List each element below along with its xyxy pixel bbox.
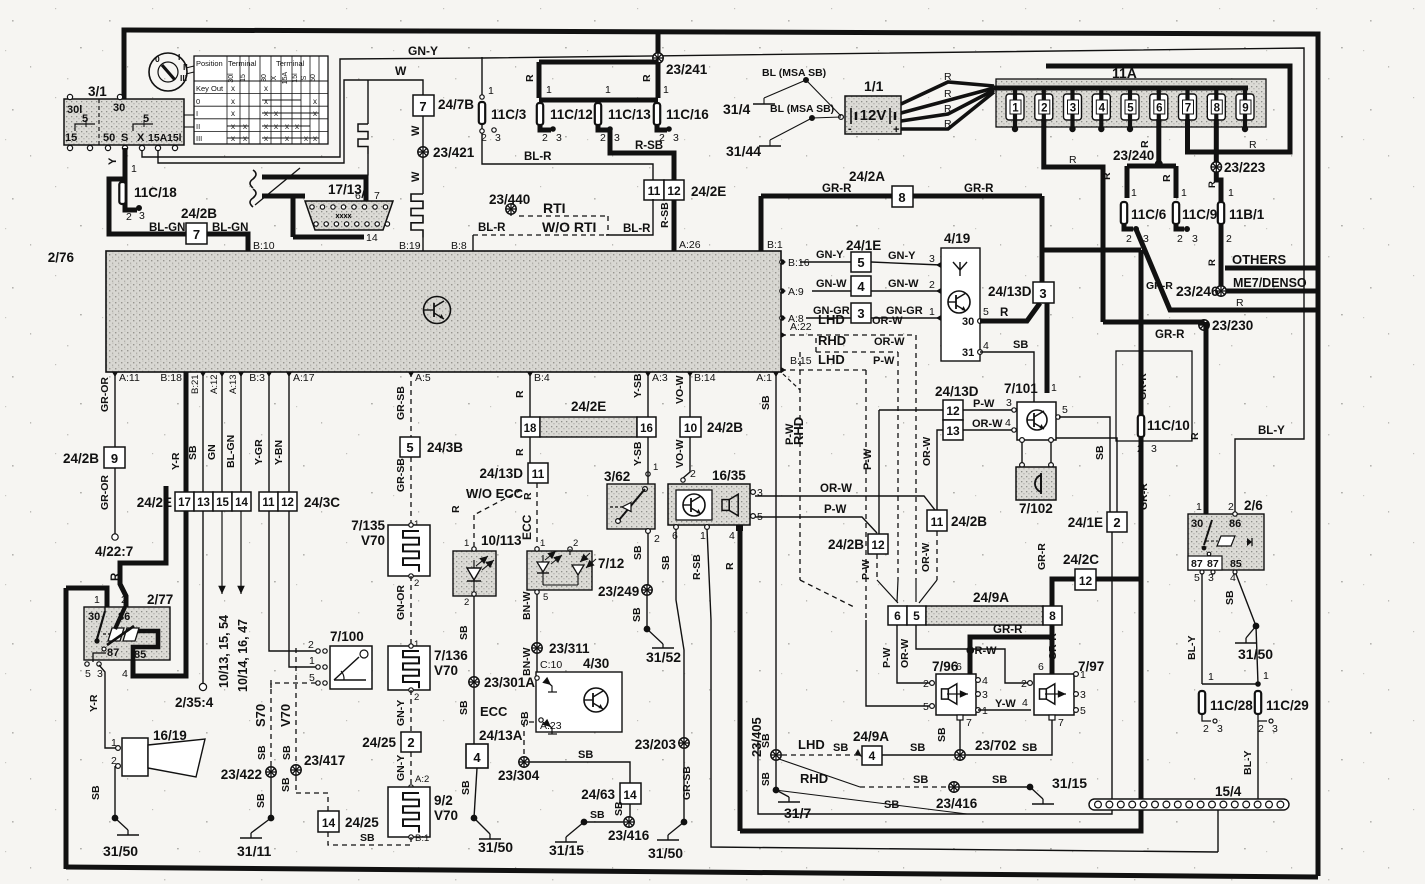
junction 23/241 xyxy=(653,31,708,77)
svg-text:7: 7 xyxy=(193,227,200,242)
svg-text:23/223: 23/223 xyxy=(1224,160,1266,175)
svg-text:III: III xyxy=(180,73,187,83)
svg-text:SB: SB xyxy=(458,700,470,715)
terminal 24/1E 5 4 3 xyxy=(846,238,881,323)
wire R 16/35 leg xyxy=(724,527,740,831)
svg-text:24/13D: 24/13D xyxy=(988,284,1032,299)
svg-text:SB: SB xyxy=(256,745,268,760)
svg-text:14: 14 xyxy=(322,816,336,830)
svg-text:5: 5 xyxy=(543,592,548,603)
wire GN-OR xyxy=(395,576,419,650)
sensor 7/100 xyxy=(308,629,372,689)
svg-text:3: 3 xyxy=(556,132,562,144)
svg-text:B:14: B:14 xyxy=(694,372,716,384)
svg-text:GN-Y: GN-Y xyxy=(888,250,916,262)
svg-text:12: 12 xyxy=(1079,574,1093,588)
svg-text:A:9: A:9 xyxy=(788,286,804,298)
svg-text:5: 5 xyxy=(1062,404,1068,416)
wire squiggle right of table xyxy=(358,80,368,198)
svg-text:30l: 30l xyxy=(228,73,235,83)
svg-text:3: 3 xyxy=(97,668,103,680)
junction 23/246 xyxy=(1176,283,1226,299)
svg-text:A:26: A:26 xyxy=(679,239,701,251)
svg-text:6: 6 xyxy=(672,530,678,542)
wire OR-W 24/9A 5 xyxy=(899,625,1031,683)
svg-text:SB: SB xyxy=(360,832,375,844)
svg-text:OR-W: OR-W xyxy=(920,543,932,572)
svg-text:SB: SB xyxy=(1013,339,1028,351)
svg-text:R: R xyxy=(1101,172,1113,180)
svg-text:24/2E: 24/2E xyxy=(571,399,606,414)
svg-text:2: 2 xyxy=(542,132,548,144)
svg-text:A:3: A:3 xyxy=(652,372,668,384)
svg-text:31/50: 31/50 xyxy=(1238,646,1273,662)
wire W down to B:19 xyxy=(399,116,475,252)
svg-text:R: R xyxy=(1161,174,1173,182)
wire GR-R speakers xyxy=(970,624,1059,674)
wire Y ignition S terminal xyxy=(107,148,125,208)
svg-text:GR-R: GR-R xyxy=(1138,483,1150,510)
switch position table xyxy=(194,56,328,144)
wire SB horn ground xyxy=(90,766,139,859)
junction 23/440 RTI option xyxy=(473,192,651,235)
svg-text:SB: SB xyxy=(761,772,772,786)
svg-text:x: x xyxy=(231,109,235,118)
svg-text:2: 2 xyxy=(600,132,606,144)
svg-text:SB: SB xyxy=(187,445,199,460)
svg-text:1: 1 xyxy=(653,462,658,473)
junction 23/416 left xyxy=(584,809,650,843)
ground 31/52 xyxy=(644,626,681,665)
wire 7/100 pin5 dashed xyxy=(271,683,316,688)
svg-text:GR-R: GR-R xyxy=(1137,373,1149,400)
svg-text:GN-Y: GN-Y xyxy=(408,44,438,58)
svg-text:Y-SB: Y-SB xyxy=(632,441,644,466)
svg-text:4: 4 xyxy=(982,675,988,687)
svg-text:7/136: 7/136 xyxy=(434,648,468,663)
wire SB S70 xyxy=(253,680,271,772)
svg-text:86: 86 xyxy=(1229,518,1241,530)
svg-text:2: 2 xyxy=(1228,501,1234,513)
svg-text:23/240: 23/240 xyxy=(1113,148,1154,163)
svg-text:3: 3 xyxy=(1192,233,1198,245)
svg-text:2: 2 xyxy=(929,279,935,291)
svg-text:16/35: 16/35 xyxy=(712,468,746,483)
wire SB col xyxy=(187,372,207,691)
svg-text:x: x xyxy=(285,134,289,143)
svg-text:1: 1 xyxy=(131,163,137,175)
wire GR-R bus right xyxy=(1042,196,1141,250)
svg-text:14: 14 xyxy=(366,232,378,244)
svg-text:A:17: A:17 xyxy=(293,372,315,384)
wire GR-R 24/2A run xyxy=(761,183,1042,196)
svg-text:SB: SB xyxy=(1224,590,1236,605)
svg-text:11B/1: 11B/1 xyxy=(1229,207,1265,222)
svg-text:11C/13: 11C/13 xyxy=(608,107,651,122)
svg-text:BL (MSA SB): BL (MSA SB) xyxy=(762,67,826,79)
svg-text:R: R xyxy=(1207,181,1218,188)
svg-text:x: x xyxy=(313,134,317,143)
wire bottom border xyxy=(66,867,1318,877)
svg-text:SB: SB xyxy=(631,607,643,622)
svg-text:1: 1 xyxy=(546,84,552,96)
svg-text:x: x xyxy=(264,109,268,118)
svg-text:R: R xyxy=(724,562,736,570)
svg-text:31: 31 xyxy=(962,347,974,359)
svg-text:R: R xyxy=(641,74,653,82)
svg-text:1: 1 xyxy=(1080,669,1086,681)
svg-text:W: W xyxy=(410,171,422,182)
ground 31/15 left xyxy=(549,819,587,858)
terminal 24/2E 11 12 xyxy=(644,180,726,200)
terminal 24/13D 11 xyxy=(479,463,548,483)
svg-text:x: x xyxy=(231,84,235,93)
svg-text:GN-W: GN-W xyxy=(816,278,847,290)
terminal 24/2B 12 left xyxy=(828,534,888,554)
svg-text:R: R xyxy=(1249,139,1257,151)
svg-text:Terminal: Terminal xyxy=(276,59,305,68)
svg-text:12: 12 xyxy=(667,184,681,198)
svg-text:11C/16: 11C/16 xyxy=(666,107,709,122)
speaker 7/96 xyxy=(923,659,988,729)
wire LHD OR-W dashed xyxy=(781,312,916,602)
svg-text:GR-OR: GR-OR xyxy=(99,475,111,510)
svg-text:24/13A: 24/13A xyxy=(479,728,523,743)
svg-text:5: 5 xyxy=(85,668,91,680)
svg-text:3: 3 xyxy=(1272,723,1278,735)
svg-text:13: 13 xyxy=(197,497,210,509)
terminal 24/13D 3 xyxy=(988,250,1054,303)
svg-text:-: - xyxy=(848,123,852,135)
svg-text:Y-W: Y-W xyxy=(995,698,1016,710)
svg-text:SB: SB xyxy=(632,545,644,560)
svg-text:23/311: 23/311 xyxy=(549,641,590,656)
ignition key symbol xyxy=(149,52,194,91)
svg-text:X: X xyxy=(271,75,278,80)
svg-text:2: 2 xyxy=(414,692,419,703)
svg-text:6: 6 xyxy=(1038,661,1044,673)
svg-text:3: 3 xyxy=(1151,443,1157,455)
svg-text:5: 5 xyxy=(1080,705,1086,717)
svg-text:x: x xyxy=(264,84,268,93)
svg-text:R: R xyxy=(944,71,952,83)
svg-text:Y-SB: Y-SB xyxy=(632,373,644,398)
svg-text:S70: S70 xyxy=(253,704,268,727)
svg-text:12V: 12V xyxy=(860,107,887,124)
svg-text:4/22:7: 4/22:7 xyxy=(95,544,133,559)
svg-text:11C/18: 11C/18 xyxy=(134,185,177,200)
svg-text:S: S xyxy=(301,75,308,80)
svg-text:A:12: A:12 xyxy=(209,374,220,394)
svg-text:11C/3: 11C/3 xyxy=(491,107,527,122)
terminal 24/3C 11 12 xyxy=(259,492,340,511)
svg-text:R: R xyxy=(944,103,952,115)
svg-text:5: 5 xyxy=(1127,103,1134,115)
svg-text:15: 15 xyxy=(216,497,229,509)
svg-text:6: 6 xyxy=(355,190,361,202)
svg-text:3: 3 xyxy=(673,132,679,144)
svg-text:23/422: 23/422 xyxy=(221,767,262,782)
svg-text:3: 3 xyxy=(1006,397,1012,409)
svg-text:R-SB: R-SB xyxy=(691,554,703,580)
svg-text:II: II xyxy=(183,62,188,72)
svg-text:12: 12 xyxy=(281,497,294,509)
svg-text:B:10: B:10 xyxy=(253,240,275,252)
svg-text:B:21: B:21 xyxy=(190,374,201,394)
svg-text:GR-R: GR-R xyxy=(964,183,994,195)
svg-text:P-W: P-W xyxy=(881,648,893,669)
svg-text:x: x xyxy=(243,122,247,131)
svg-text:R-SB: R-SB xyxy=(635,140,663,152)
junction 23/422 xyxy=(221,767,276,818)
wire R 18 to 11 xyxy=(514,437,530,463)
svg-text:30l: 30l xyxy=(67,104,82,116)
ground 31/44 xyxy=(726,103,834,159)
svg-text:P-W: P-W xyxy=(824,504,847,516)
svg-text:R: R xyxy=(110,572,122,581)
battery 1/1 xyxy=(806,78,901,136)
wire battery fan to fusebox xyxy=(901,71,994,130)
svg-text:2: 2 xyxy=(1113,515,1120,530)
svg-text:5: 5 xyxy=(1194,572,1200,584)
wire P-W 24/9A 6 xyxy=(881,625,932,683)
ground 31/7 xyxy=(773,787,967,821)
svg-text:SB: SB xyxy=(1094,445,1106,460)
svg-text:7: 7 xyxy=(966,717,972,729)
svg-text:GN-Y: GN-Y xyxy=(816,249,844,261)
svg-text:1: 1 xyxy=(700,530,706,542)
svg-text:2/6: 2/6 xyxy=(1244,498,1263,513)
svg-text:3: 3 xyxy=(857,306,864,321)
svg-text:2: 2 xyxy=(690,468,696,480)
svg-text:10: 10 xyxy=(684,421,698,435)
svg-text:7: 7 xyxy=(374,190,380,202)
svg-text:1: 1 xyxy=(1228,187,1234,199)
svg-text:OR-W: OR-W xyxy=(972,418,1003,430)
svg-text:1: 1 xyxy=(1196,501,1202,513)
wire SB 16/35 pin6 xyxy=(660,529,684,738)
svg-text:BL-GN: BL-GN xyxy=(149,222,185,234)
svg-text:9/2: 9/2 xyxy=(434,793,453,808)
svg-text:BL-R: BL-R xyxy=(623,223,651,235)
svg-text:7/12: 7/12 xyxy=(598,556,624,571)
svg-text:Position: Position xyxy=(196,59,223,68)
svg-text:R: R xyxy=(524,74,536,82)
svg-text:x: x xyxy=(264,122,268,131)
wire R relay feed kink xyxy=(110,486,166,607)
svg-text:4/30: 4/30 xyxy=(583,656,609,671)
svg-text:R: R xyxy=(1189,432,1201,440)
svg-text:2: 2 xyxy=(414,578,419,589)
svg-text:24/25: 24/25 xyxy=(345,815,379,830)
svg-text:12: 12 xyxy=(871,538,885,552)
svg-text:24/9A: 24/9A xyxy=(853,729,889,744)
svg-text:7: 7 xyxy=(419,99,426,114)
svg-text:10/14, 16, 47: 10/14, 16, 47 xyxy=(236,619,250,692)
svg-text:11C/12: 11C/12 xyxy=(550,107,593,122)
svg-text:GN-Y: GN-Y xyxy=(395,755,407,781)
svg-text:11C/29: 11C/29 xyxy=(1266,698,1309,713)
svg-text:x: x xyxy=(231,134,235,143)
svg-text:BL-GN: BL-GN xyxy=(225,435,237,468)
wire link 11C/28 29 xyxy=(1202,670,1269,686)
junction 23/702 xyxy=(882,720,1052,760)
ground 31/50 right xyxy=(1235,623,1273,684)
wire BL-Y to 15/4 xyxy=(1242,721,1258,799)
svg-text:x: x xyxy=(295,122,299,131)
svg-text:GR-SB: GR-SB xyxy=(395,386,407,420)
svg-text:23/249: 23/249 xyxy=(598,584,639,599)
svg-text:4: 4 xyxy=(857,279,865,294)
svg-text:3: 3 xyxy=(139,210,145,222)
svg-text:Terminal: Terminal xyxy=(228,59,257,68)
junction 23/230 xyxy=(1103,280,1253,341)
svg-text:ECC: ECC xyxy=(480,704,508,719)
wire P-W RHD labels xyxy=(784,352,856,608)
svg-text:7/96: 7/96 xyxy=(932,659,959,674)
svg-text:R: R xyxy=(1000,307,1009,319)
svg-text:x: x xyxy=(313,97,317,106)
svg-text:SB: SB xyxy=(936,727,948,742)
relay 2/77 xyxy=(84,592,173,680)
svg-text:Y-R: Y-R xyxy=(88,694,100,712)
svg-text:SB: SB xyxy=(833,742,848,754)
svg-text:11: 11 xyxy=(532,467,545,481)
fuses 1-9 xyxy=(1006,87,1254,120)
wire Y-BN col xyxy=(273,372,316,667)
svg-text:24/2B: 24/2B xyxy=(828,537,864,552)
svg-text:23/405: 23/405 xyxy=(749,717,764,757)
relay 7/101 xyxy=(1004,381,1068,440)
svg-text:ME7/DENSO: ME7/DENSO xyxy=(1233,276,1307,290)
svg-text:A:1: A:1 xyxy=(756,372,772,384)
wire ECC dashed xyxy=(520,483,537,549)
junction 23/417 xyxy=(280,753,345,793)
svg-text:R: R xyxy=(1207,259,1218,266)
wire P-W to 24/2B 12 xyxy=(862,410,943,534)
svg-text:2: 2 xyxy=(1177,233,1183,245)
svg-text:10/113: 10/113 xyxy=(481,533,522,548)
terminal 24/3B 5 xyxy=(395,372,463,457)
svg-text:SB: SB xyxy=(1022,742,1037,754)
svg-text:P-W: P-W xyxy=(860,560,872,581)
svg-text:R: R xyxy=(944,88,952,100)
svg-text:30: 30 xyxy=(962,316,974,328)
wire Y-SB xyxy=(632,372,658,476)
svg-text:6: 6 xyxy=(1156,103,1162,115)
svg-text:24/13D: 24/13D xyxy=(935,384,979,399)
svg-text:31/50: 31/50 xyxy=(648,845,683,861)
module 4/30 xyxy=(480,656,622,734)
wire BL-GN to B:10 xyxy=(207,234,275,252)
wire SB V70 xyxy=(278,640,296,770)
svg-text:15/4: 15/4 xyxy=(1215,784,1242,799)
svg-text:1: 1 xyxy=(111,737,117,749)
wires GN to 24/1E xyxy=(800,249,851,318)
svg-text:III: III xyxy=(196,134,202,143)
wire GN-Y / BL-Y top run xyxy=(142,44,1304,514)
svg-text:A:23: A:23 xyxy=(540,720,562,732)
connector 11C/16 xyxy=(654,84,709,144)
svg-text:30: 30 xyxy=(1191,518,1203,530)
svg-text:1/1: 1/1 xyxy=(864,78,884,94)
svg-text:1: 1 xyxy=(1208,671,1214,683)
svg-text:SB: SB xyxy=(281,745,293,760)
wire LHD P-W dashed xyxy=(781,352,895,620)
svg-text:2: 2 xyxy=(923,678,929,690)
svg-text:B:15: B:15 xyxy=(790,355,812,367)
wire ME7/DENSO xyxy=(1221,276,1318,291)
svg-text:11C/28: 11C/28 xyxy=(1210,698,1253,713)
svg-text:31/15: 31/15 xyxy=(549,842,584,858)
wire R 4/19 to 24/13D 3 xyxy=(980,303,1040,321)
svg-text:x: x xyxy=(264,134,268,143)
wire Y-GR col xyxy=(253,372,316,651)
terminal 24/7B 7 xyxy=(413,95,474,116)
svg-text:50: 50 xyxy=(310,74,317,82)
svg-text:B:1: B:1 xyxy=(415,833,429,844)
wire R diagonal from 11C/6 xyxy=(1136,229,1318,310)
svg-text:W: W xyxy=(395,64,407,78)
svg-text:SB: SB xyxy=(760,395,772,410)
wire Y-R thick xyxy=(133,372,186,676)
svg-text:87: 87 xyxy=(107,647,119,659)
wire GN-Y A2 xyxy=(395,752,429,789)
wire GN col xyxy=(206,372,231,688)
svg-text:3: 3 xyxy=(929,253,935,265)
svg-text:4: 4 xyxy=(1099,103,1106,115)
wire GR-R long vertical xyxy=(740,250,1150,831)
resistor 7/135 xyxy=(351,518,430,589)
svg-text:7/100: 7/100 xyxy=(330,629,364,644)
svg-text:GR-R: GR-R xyxy=(1036,543,1048,570)
svg-text:LHD: LHD xyxy=(818,312,845,327)
svg-text:OR-W: OR-W xyxy=(820,483,852,495)
svg-text:GR-SB: GR-SB xyxy=(395,458,407,492)
svg-text:SB: SB xyxy=(910,742,925,754)
connector 11C/3 xyxy=(479,43,527,144)
connector 11C/6 xyxy=(1121,187,1167,245)
svg-text:8: 8 xyxy=(1214,103,1221,115)
terminal 24/2E 18 16 xyxy=(521,399,656,437)
wire SB dashed 24/25 path xyxy=(296,793,411,845)
terminal 24/2B 10 xyxy=(680,417,743,437)
svg-text:S: S xyxy=(121,132,128,144)
wire R B:4 xyxy=(514,372,530,492)
wire BN-W xyxy=(521,590,548,648)
svg-text:1: 1 xyxy=(663,84,669,96)
junction 23/240 xyxy=(1113,140,1176,198)
svg-text:A:11: A:11 xyxy=(119,372,140,384)
svg-text:5: 5 xyxy=(82,113,88,125)
ground 31/11 xyxy=(237,815,274,859)
svg-text:3: 3 xyxy=(1070,103,1076,115)
svg-text:31/11: 31/11 xyxy=(237,843,271,859)
svg-text:31/15: 31/15 xyxy=(1052,775,1087,791)
horn 16/19 xyxy=(111,728,205,777)
svg-text:11: 11 xyxy=(648,184,661,198)
svg-text:15: 15 xyxy=(240,74,247,82)
svg-text:V70: V70 xyxy=(278,704,293,727)
svg-text:OR-W: OR-W xyxy=(872,315,903,327)
svg-text:85: 85 xyxy=(1230,558,1242,570)
svg-text:BL (MSA SB): BL (MSA SB) xyxy=(770,103,834,115)
svg-text:24/13D: 24/13D xyxy=(479,466,523,481)
svg-text:X: X xyxy=(137,132,145,144)
wire BL-Y 87 down xyxy=(1186,574,1202,684)
junction 23/416 right xyxy=(936,774,1030,811)
svg-text:RHD: RHD xyxy=(791,417,806,445)
